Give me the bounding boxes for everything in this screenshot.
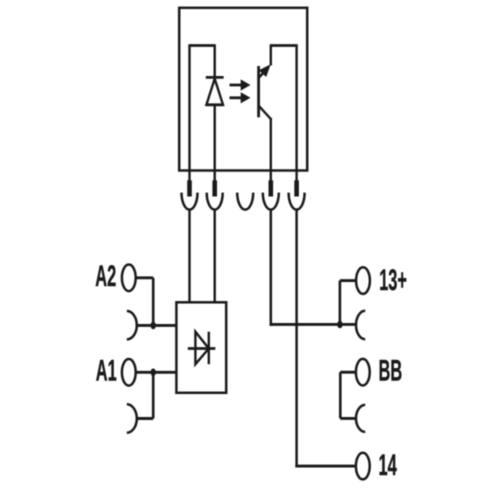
wire emitter to 13+ rail vertical <box>270 210 273 326</box>
transistor Q1 collector diagonal <box>259 72 265 78</box>
svg-text:BB: BB <box>379 355 403 388</box>
pin 5 plug <box>294 180 299 196</box>
wire pin lead 1 <box>188 171 190 182</box>
wire socket A2 to block <box>137 324 177 327</box>
socket 13+ pair <box>356 311 365 339</box>
socket cup 2 <box>207 193 223 210</box>
svg-text:A2: A2 <box>95 260 116 293</box>
socket cup 4 <box>263 193 279 210</box>
wire BB bridge vertical <box>339 372 342 418</box>
wire LED anode lead <box>213 105 215 171</box>
wire pin lead 4 <box>270 171 272 182</box>
terminal BB circle <box>356 359 370 386</box>
wire BB bridge horizontal bottom <box>340 417 356 420</box>
light arrow upper <box>230 84 243 87</box>
diode block D2 outline <box>176 302 226 393</box>
terminal 14 circle <box>356 453 370 480</box>
node junction A2 <box>151 322 156 330</box>
terminal 13+ circle <box>356 267 370 294</box>
pin 4 plug <box>269 180 274 196</box>
socket cup 3 unused <box>237 193 253 210</box>
terminal A2 circle <box>122 265 136 292</box>
wire emitter lead <box>270 118 272 171</box>
transistor Q1 emitter diagonal <box>259 106 271 119</box>
node junction 13+ <box>337 321 342 329</box>
diode D1 LED cathode bar <box>206 76 224 79</box>
diode D2 horizontal wire <box>188 347 216 350</box>
wire A2 to bridge <box>135 276 153 279</box>
wire cup2 to diode block <box>213 210 215 303</box>
socket A1 pair <box>127 404 137 432</box>
wire left input vertical <box>188 44 190 170</box>
diode D1 LED anode base bar <box>206 103 224 106</box>
wire 13+ bridge horizontal <box>340 279 355 282</box>
light arrow lower <box>230 96 243 99</box>
socket A2 pair <box>127 311 137 339</box>
terminal A1 circle <box>122 359 136 386</box>
socket cup 5 <box>289 193 305 210</box>
wire collector rail <box>295 44 297 170</box>
wire right pair top bridge <box>271 44 297 47</box>
node junction A1 <box>151 369 156 377</box>
wire LED cathode lead <box>213 44 215 77</box>
svg-text:A1: A1 <box>96 355 117 388</box>
pin 1 plug <box>187 180 192 196</box>
wire A2 bridge vertical <box>152 278 155 326</box>
wire collector to 14 rail vertical <box>295 210 298 468</box>
diode D2 triangle <box>195 332 208 365</box>
transistor Q1 collector arrowhead <box>259 64 271 77</box>
diode D2 cathode bar <box>208 332 210 365</box>
wire A1 to block <box>135 371 176 374</box>
wire socket A1 to bridge <box>137 417 154 420</box>
op-amp U1 optocoupler module outline <box>179 8 307 171</box>
wire emitter to 13+ rail horizontal <box>270 323 356 326</box>
wire 13+ bridge vertical <box>339 281 342 325</box>
svg-text:14: 14 <box>379 449 398 482</box>
socket cup 1 <box>182 193 198 210</box>
transistor Q1 base bar <box>257 66 260 117</box>
wire collector to 14 rail horizontal <box>295 465 355 468</box>
wire left pair top bridge <box>190 44 215 47</box>
wire pin lead 5 <box>295 171 297 182</box>
pin 2 plug <box>212 180 217 196</box>
wire A1 bridge vertical <box>152 372 155 418</box>
wire BB bridge horizontal top <box>340 371 355 374</box>
socket BB pair <box>356 405 365 432</box>
wire cup1 to diode block <box>188 210 190 303</box>
wire pin lead 2 <box>213 171 215 182</box>
svg-text:13+: 13+ <box>379 264 407 297</box>
wire collector stub <box>270 44 272 65</box>
diode D1 LED triangle <box>206 79 223 105</box>
